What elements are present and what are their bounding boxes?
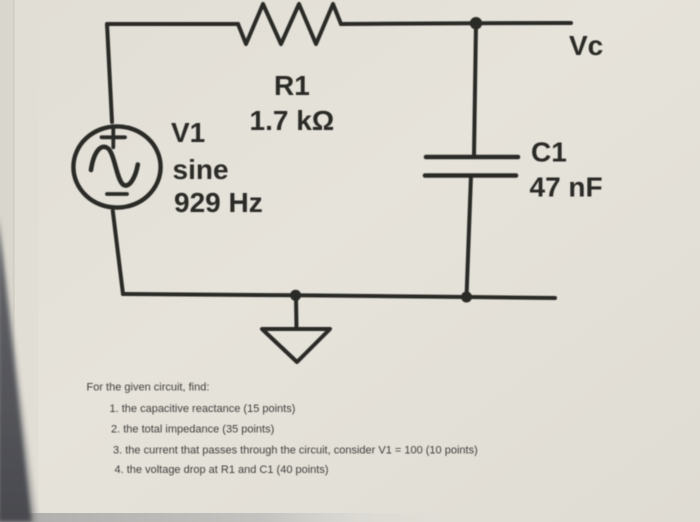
svg-text:Vc: Vc bbox=[569, 30, 603, 61]
resistor R1 bbox=[238, 4, 341, 44]
V1 sine squiggle bbox=[91, 147, 138, 186]
wire: bottom rail bbox=[123, 294, 555, 298]
capacitor C1 top plate bbox=[426, 155, 518, 160]
svg-text:V1: V1 bbox=[171, 117, 205, 148]
wire: ground stub bbox=[294, 297, 299, 329]
svg-text:C1: C1 bbox=[531, 137, 567, 168]
svg-text:47 nF: 47 nF bbox=[530, 172, 603, 203]
wire: R1 to node Vc bbox=[341, 21, 476, 26]
capacitor C1 bottom plate bbox=[425, 173, 516, 178]
ground bbox=[262, 329, 330, 362]
svg-text:1.7 kΩ: 1.7 kΩ bbox=[250, 105, 335, 136]
svg-text:1. the capacitive reactance (1: 1. the capacitive reactance (15 points) bbox=[110, 403, 296, 415]
wire: V1 bottom down to bottom rail bbox=[113, 211, 123, 294]
junction dot: C1 on bottom rail bbox=[461, 292, 472, 303]
svg-text:R1: R1 bbox=[274, 70, 310, 101]
wire: node Vc stub to the right bbox=[476, 21, 571, 25]
wire: C1 bottom plate down to bottom rail bbox=[467, 176, 472, 298]
wire: top-left corner from V1 up to R1 bbox=[107, 24, 238, 122]
V1 minus sign bbox=[107, 192, 127, 196]
svg-text:929 Hz: 929 Hz bbox=[174, 187, 263, 218]
V1 plus sign bbox=[102, 127, 126, 147]
svg-text:sine: sine bbox=[173, 154, 229, 185]
svg-text:3. the current that passes thr: 3. the current that passes through the c… bbox=[113, 445, 478, 457]
voltage source V1 circle bbox=[73, 126, 160, 207]
svg-text:2. the total impedance (35 poi: 2. the total impedance (35 points) bbox=[111, 424, 274, 436]
junction dot: ground on bottom rail bbox=[290, 290, 301, 301]
svg-text:4. the voltage drop at R1 and: 4. the voltage drop at R1 and C1 (40 poi… bbox=[115, 464, 329, 476]
wire: node Vc down to C1 top plate bbox=[474, 23, 476, 156]
svg-text:For the given circuit, find:: For the given circuit, find: bbox=[87, 381, 210, 393]
junction dot at node Vc bbox=[470, 17, 482, 29]
